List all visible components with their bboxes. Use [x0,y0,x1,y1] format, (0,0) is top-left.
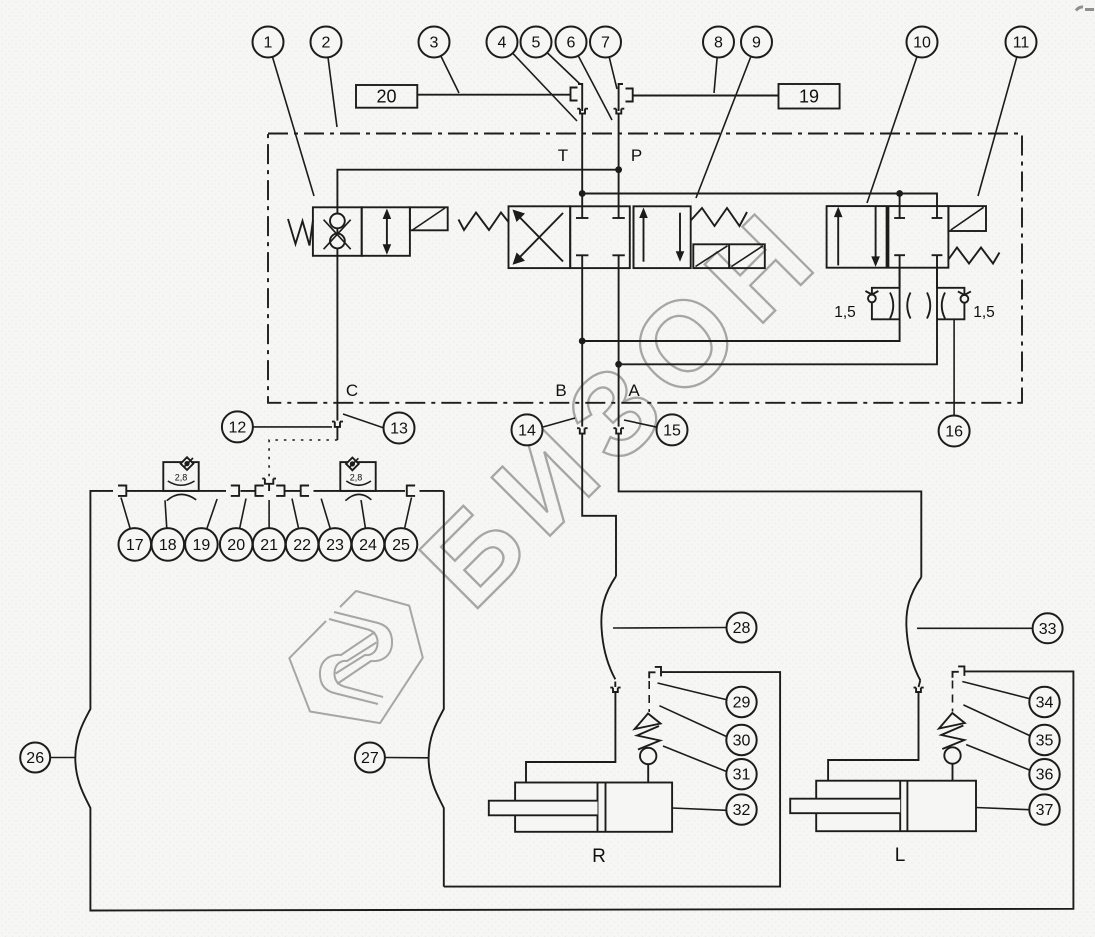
callout circle 25 [385,528,418,561]
svg-text:19: 19 [193,537,211,554]
wire A1 down to line [619,268,937,365]
leader 29 [658,683,728,700]
coupler T upper female [571,88,578,101]
valve V2 left square with crossed arrows [509,206,571,268]
wire valve1 top to P line [337,170,618,208]
svg-text:34: 34 [1036,695,1054,712]
pipe to cylinder L [828,692,918,781]
leader 12 [253,426,332,428]
callout circle 9 [741,27,772,58]
leader 32 [672,808,726,810]
part box 19 [779,84,840,109]
leader 30 [659,706,727,737]
callout 3 leader [434,42,459,93]
callout circle 3 [419,27,450,58]
svg-text:C: C [346,381,358,400]
svg-text:35: 35 [1036,733,1054,750]
callout circle 36 [1029,759,1059,789]
callout circle 10 [907,27,938,58]
svg-text:T: T [558,146,568,165]
callout circle 33 [1033,613,1063,643]
valve V1 body (lock valve section) [313,207,362,256]
port P line down into valve2 [618,114,620,218]
valve V2 port A stub [618,255,620,268]
svg-text:10: 10 [913,35,931,52]
port P blocked bar in valve2 [612,217,624,219]
leader 26 [50,757,74,759]
callout circle 14 [512,414,543,445]
coupler L feed [914,680,924,692]
svg-text:4: 4 [498,35,507,52]
svg-text:32: 32 [733,802,751,819]
callout circle 27 [355,743,385,773]
fitting 20 bracket [255,485,263,497]
valve V3 bottom stubs [899,255,901,288]
callout 4 leader [502,42,577,121]
check restrictor right box [937,288,964,320]
manifold top edge segments [127,490,444,492]
leader 20 [236,499,246,545]
fitting 21 bracket [276,485,284,497]
callout circle 13 [384,413,415,444]
coupler T lower [577,109,588,114]
relief box 24 (2,8) [340,462,375,491]
coupler A [613,428,624,433]
valve V2 spring right [691,208,747,226]
coupler arcs at A1 [927,293,930,319]
svg-text:8: 8 [714,35,723,52]
svg-text:16: 16 [945,424,963,441]
check valve ball left [868,295,876,303]
watermark corner mark [1076,7,1094,11]
callout circle 17 [119,528,152,561]
cylinder R piston [597,783,599,832]
callout 9 leader [696,42,757,198]
valve V3 left square with arrows [827,206,887,268]
callout 6 leader [571,42,612,120]
svg-text:18: 18 [159,537,177,554]
svg-text:12: 12 [229,419,247,436]
wire valve1 to port C [336,256,338,421]
svg-text:14: 14 [518,422,536,439]
callout circle 26 [20,743,50,773]
valve V1 double arrow [386,214,388,250]
fitting 25 [407,485,415,497]
leader 15 [624,420,657,427]
svg-text:20: 20 [227,537,245,554]
leader 19 [201,499,217,544]
svg-text:15: 15 [663,422,681,439]
leader 36 [966,745,1029,770]
callout circle 5 [521,27,552,58]
junction A [615,361,622,368]
svg-text:23: 23 [326,537,344,554]
port A line [618,268,620,427]
callout 10 leader [867,42,922,203]
manifold tank box [75,491,1073,911]
svg-text:B: B [555,381,566,400]
dotted pipe C to manifold [269,440,337,478]
callout circle 16 [939,416,970,447]
relief spring L [941,726,964,750]
svg-text:30: 30 [733,733,751,750]
callout circle 32 [726,794,756,824]
leader 28 [613,627,728,630]
svg-text:R: R [592,846,606,867]
valve V3 right square [888,206,948,268]
coupler on manifold center [262,479,276,484]
junction T [579,190,586,197]
port T blocked bar in valve2 [576,217,588,219]
valve V1 cross lines [324,220,351,250]
check restrictor left box [872,288,900,320]
callout circle 1 [253,27,284,58]
callout circle 35 [1029,725,1059,755]
coupler P lower [614,109,625,114]
callout circle 8 [703,27,734,58]
svg-text:11: 11 [1013,35,1030,52]
stub C to dotted line [336,427,338,440]
hose B down to cylinder R circuit [582,434,616,577]
callout circle 11 [1006,27,1037,58]
coupler P upper male [619,84,623,111]
svg-text:P: P [631,146,642,165]
relief ball L [944,747,960,763]
callout circle 28 [727,613,757,643]
callout circle 6 [556,27,587,58]
relief poppet L triangle [939,713,965,729]
callout 8 leader [714,42,719,93]
svg-text:36: 36 [1036,767,1054,784]
hose break L [906,577,921,680]
cylinder L barrel [816,781,976,832]
callout circle 31 [726,759,756,789]
pipe to cylinder R [526,692,615,783]
fitting 19 [231,485,239,497]
valve V2 middle square [570,206,630,268]
cylinder L piston [899,781,901,832]
svg-text:22: 22 [293,537,311,554]
wire T line to valve3 pilot [582,194,937,219]
coupler arcs at B1 [890,293,893,319]
relief spring R [637,726,660,750]
callout circle 20 [220,528,253,561]
svg-text:37: 37 [1036,802,1054,819]
coupler C [332,422,343,427]
callout circle 21 [253,528,286,561]
callout circle 4 [487,27,518,58]
valve V2 spring left [459,213,509,231]
leader 31 [663,746,727,772]
leader 34 [962,682,1031,700]
svg-text:6: 6 [567,35,576,52]
manifold right edge with break [429,491,444,887]
svg-text:2: 2 [322,35,331,52]
svg-text:1: 1 [264,35,273,52]
leader 33 [917,627,1034,629]
cylinder R rod [489,801,598,816]
svg-text:33: 33 [1039,621,1057,638]
callout 7 leader [606,42,618,89]
relief box 18 (2,8) [163,462,198,491]
watermark logo hexagon swirl [289,591,423,723]
callout circle 24 [352,528,385,561]
leader 21 [268,500,270,544]
leader 35 [963,705,1030,736]
fitting 29 brackets [649,672,655,678]
fitting 17 [118,485,126,497]
callout circle 18 [152,528,185,561]
svg-text:26: 26 [26,750,44,767]
svg-text:27: 27 [361,750,379,767]
check valve ball right [961,295,969,303]
junction valve3 pilot [896,190,903,197]
valve V1 solenoid [410,207,448,230]
hose A right to cylinder L circuit [619,434,922,578]
leader 14 [543,418,575,427]
svg-text:19: 19 [799,87,819,107]
port B line [581,268,583,427]
part box 20 [356,85,417,108]
svg-text:17: 17 [126,537,144,554]
svg-text:3: 3 [430,35,439,52]
svg-text:24: 24 [359,537,377,554]
junction B [579,338,586,345]
leader 13 [343,414,384,428]
svg-text:2,8: 2,8 [350,473,363,483]
coupler T upper male [578,84,582,111]
leader 23 [321,499,335,545]
hose break R [601,576,616,679]
fitting 22 [301,485,309,497]
svg-text:21: 21 [260,537,278,554]
svg-text:2,8: 2,8 [175,473,188,483]
leader 24 [361,500,368,544]
svg-text:L: L [895,845,906,866]
svg-text:29: 29 [733,695,751,712]
junction P [615,166,622,173]
relief ball R [640,748,656,764]
svg-text:1,5: 1,5 [834,304,856,321]
valve V1 check circles [336,207,338,256]
coupler R feed [610,682,620,693]
callout circle 19 [185,528,218,561]
svg-text:A: A [628,381,640,400]
valve V1 spring [288,219,313,246]
valve V3 spring [948,248,999,264]
wire B1 down to line [582,268,899,341]
pilot dashed line R [648,681,650,712]
callout circle 29 [726,687,756,717]
callout 11 leader [978,42,1021,196]
callout circle 37 [1029,794,1059,824]
svg-text:13: 13 [390,421,408,438]
callout 2 leader [326,42,337,127]
coupler P upper female [626,89,633,102]
svg-text:20: 20 [376,87,396,107]
leader 16 [953,319,955,431]
svg-text:7: 7 [601,35,610,52]
wire P coupler to box19 [633,95,779,97]
wire box20 to T coupler [417,94,570,96]
leader 17 [121,498,135,545]
svg-text:1,5: 1,5 [973,304,995,321]
watermark text БИЗОН [396,179,849,632]
callout 1 leader [268,42,314,196]
callout circle 15 [657,414,688,445]
pilot dashed line L [952,681,954,712]
svg-text:5: 5 [532,35,541,52]
valve V2 port B stub [581,255,583,268]
callout circle 23 [319,528,352,561]
leader 27 [385,757,429,759]
callout circle 34 [1029,687,1059,717]
leader 18 [165,500,168,544]
callout circle 2 [311,27,342,58]
callout 5 leader [536,42,580,84]
cylinder L rod [790,799,900,814]
svg-text:31: 31 [733,767,751,784]
callout circle 30 [726,725,756,755]
relief poppet R triangle [635,714,661,730]
callout circle 22 [286,528,319,561]
svg-text:25: 25 [392,537,410,554]
coupler B [577,428,588,433]
hydraulic block boundary (dash-dot enclosure) [268,134,1022,403]
valve V3 solenoid [948,206,986,231]
leader 22 [292,499,302,545]
valve3 pilot port stub left [899,194,901,219]
callout circle 12 [222,411,253,442]
port T line down into valve2 [581,114,583,218]
svg-text:9: 9 [752,35,761,52]
valve V3 top stub bars [894,217,905,219]
leader 25 [401,498,412,545]
cylinder R barrel [515,783,672,832]
valve V2 right square with arrows [633,206,635,268]
cylinder R enclosure [444,672,780,887]
valve V2 solenoid pair [693,244,765,268]
svg-text:28: 28 [733,620,751,637]
leader 37 [976,808,1029,810]
fitting 34 brackets [953,672,959,678]
callout circle 7 [590,27,621,58]
